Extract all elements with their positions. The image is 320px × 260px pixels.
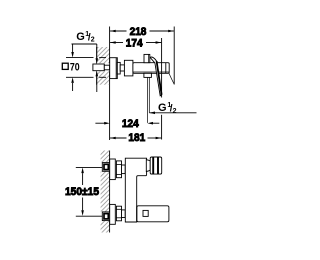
body front step line (top view) (133, 71, 169, 73)
extension line 218 right (173, 27, 175, 85)
svg-text:G: G (158, 102, 167, 114)
svg-text:181: 181 (128, 132, 145, 144)
shared extension line for dims 174 and 181 (upper part) (161, 38, 163, 98)
cartridge knob on body (top view) (144, 54, 150, 62)
svg-text:70: 70 (70, 62, 80, 74)
svg-text:150±15: 150±15 (65, 186, 99, 198)
lever knob (front view) (150, 157, 162, 174)
body end cap line (top view) (165, 63, 167, 74)
dimension line 218 with arrows (110, 30, 174, 33)
lever blade thick edge (157, 61, 162, 95)
lever swing arc hint (169, 73, 174, 84)
bottom wall elbow outer square (102, 212, 110, 221)
wall hatching (front view) (101, 151, 110, 233)
lever neck (front view) (146, 160, 150, 172)
svg-text:G: G (76, 31, 85, 43)
G 1/2 outlet leader with arrow (149, 112, 196, 115)
svg-text:174: 174 (126, 37, 143, 49)
top union nut collar (122, 165, 126, 174)
mixer body stepped outline (front view) (125, 158, 146, 222)
white gaps in wall at unions (100, 162, 110, 221)
escutcheon plate edge view (top view) (110, 58, 118, 79)
S-union tube (top view) (117, 62, 120, 74)
S-union step collar (top view) (120, 65, 124, 71)
body edge line through spout (136, 206, 138, 222)
dimension line 174 with arrows (110, 41, 161, 44)
supply pipe wide section (top view) (93, 64, 104, 71)
dimension line 124 with outside arrows (95, 122, 159, 125)
top escutcheon plate (front view) (110, 159, 116, 180)
G 1/2 leader and pipe diameter arrows (72, 44, 99, 92)
shared extension line for dims 174 and 181 (lower part) (161, 115, 163, 140)
extension lines for dim 150±15 (76, 167, 103, 216)
extension line 218 left at wall surface (109, 27, 111, 48)
lever knob groove lines (153, 157, 158, 174)
extension lines for dim square-70 (66, 58, 106, 78)
wall surface extension line down to dim 181 (109, 85, 111, 140)
top wall elbow inner square (104, 164, 108, 169)
cartridge knob inner line (147, 54, 149, 62)
svg-text:2: 2 (173, 108, 177, 115)
wall surface line (front view) (109, 151, 111, 233)
bottom union nut facet lines (116, 209, 121, 218)
svg-text:124: 124 (122, 118, 139, 130)
wall hatching (top view) (97, 47, 110, 85)
shower outlet stub under body (top view) (144, 73, 152, 77)
dimension text square-70 (62, 62, 79, 74)
label G 1/2 (shower outlet) (158, 102, 177, 115)
top union nut (front view) (116, 161, 121, 178)
bottom escutcheon plate (front view) (110, 204, 116, 224)
dim square-70 outside arrows (71, 44, 74, 91)
svg-text:2: 2 (91, 37, 95, 44)
supply pipe narrow neck (top view) (104, 65, 109, 70)
dimension line 181 with arrows (110, 137, 161, 140)
dimension line 150±15 with arrows (81, 168, 84, 216)
bottom union nut (front view) (116, 206, 121, 221)
outlet projection line right (148, 77, 150, 112)
mixer body (top view) (133, 63, 169, 74)
svg-text:218: 218 (130, 26, 147, 38)
spout square detail (143, 210, 148, 216)
wall back boundary line (top view) (96, 47, 98, 85)
top wall elbow outer square (102, 163, 110, 172)
spout (front view) (137, 206, 169, 222)
lever blade (top view) (150, 57, 162, 96)
bottom union nut collar (122, 210, 126, 218)
bottom wall elbow inner square (104, 214, 108, 219)
white gap where supply pipe crosses wall (96, 63, 110, 71)
wall surface line (top view) (109, 47, 111, 85)
label G 1/2 (top connection) (76, 31, 95, 44)
top union nut facet lines (116, 164, 121, 174)
escutcheon plate inner edge line (115, 58, 117, 79)
union nut (top view) (124, 60, 132, 76)
outlet projection line left (146, 77, 148, 123)
